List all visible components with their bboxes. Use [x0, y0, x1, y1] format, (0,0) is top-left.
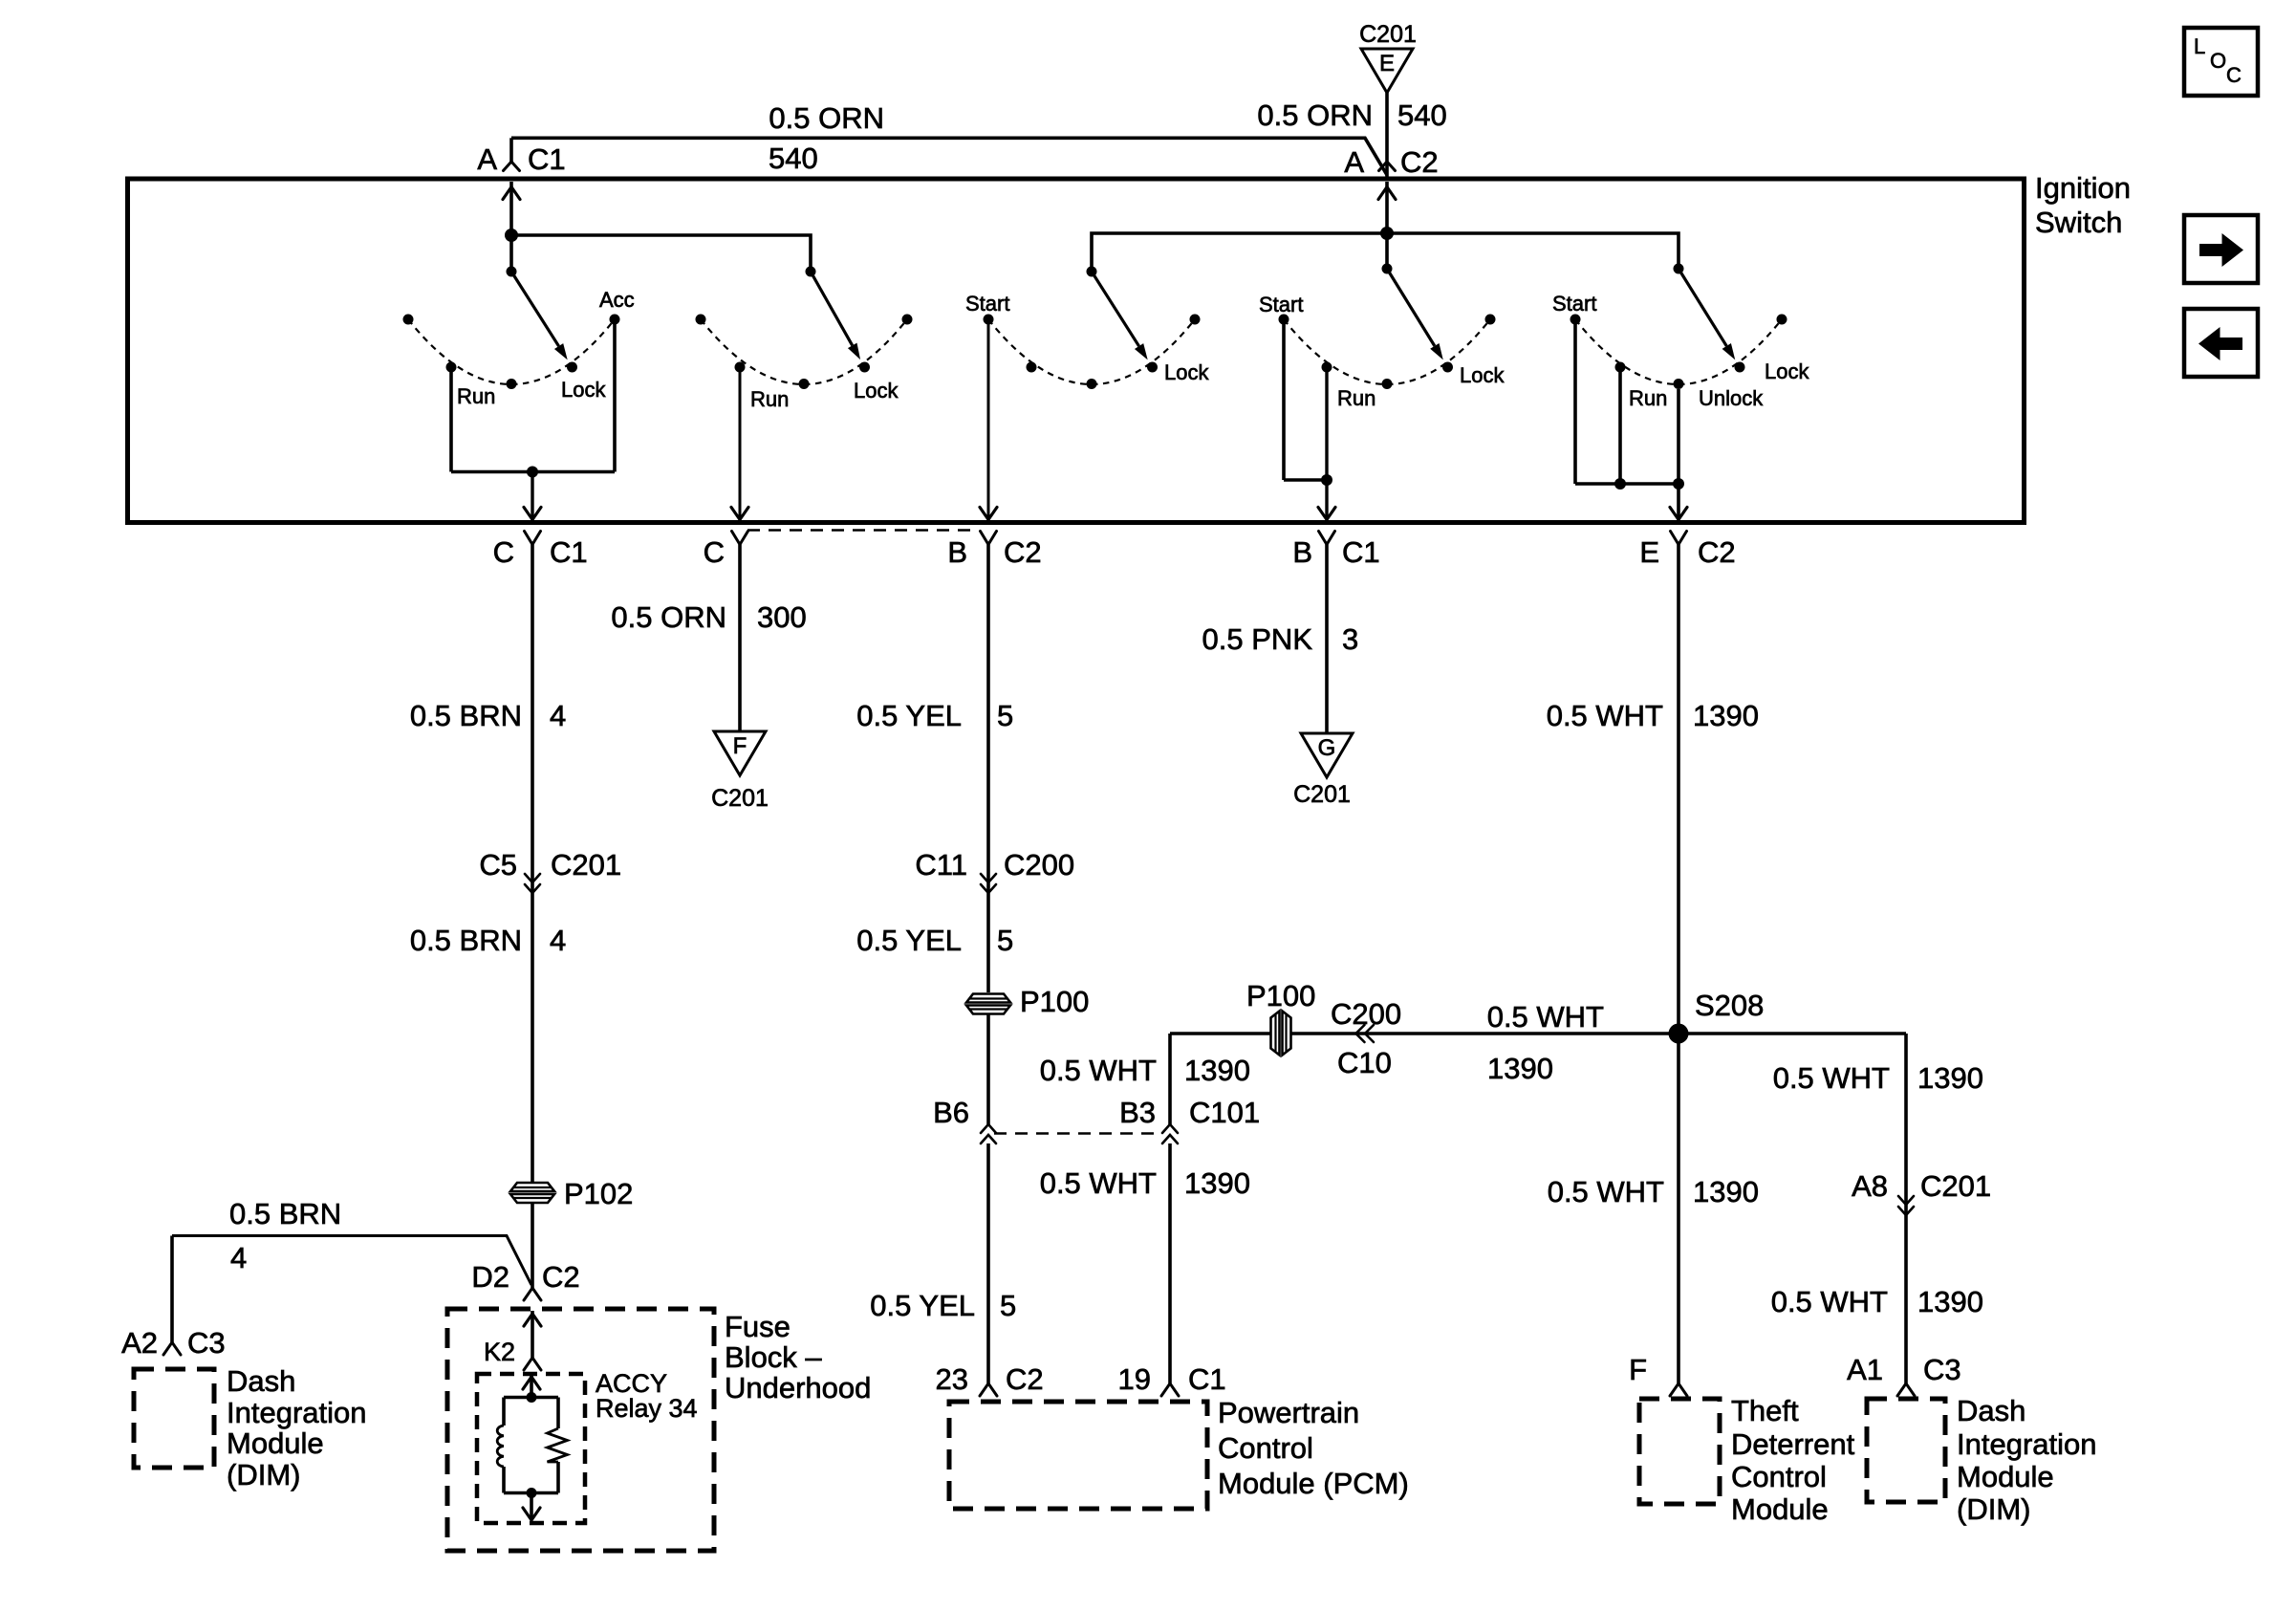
- svg-text:4: 4: [550, 699, 566, 732]
- svg-text:1390: 1390: [1917, 1061, 1983, 1095]
- svg-text:Run: Run: [1337, 386, 1375, 410]
- svg-text:C2: C2: [542, 1260, 580, 1294]
- svg-text:C10: C10: [1337, 1046, 1392, 1079]
- svg-text:Relay 34: Relay 34: [596, 1394, 698, 1423]
- svg-text:C200: C200: [1004, 848, 1074, 882]
- svg-text:Dash: Dash: [227, 1364, 295, 1398]
- svg-text:C3: C3: [1923, 1353, 1961, 1386]
- svg-text:E: E: [1379, 51, 1395, 76]
- svg-text:1390: 1390: [1917, 1285, 1983, 1318]
- svg-text:0.5 YEL: 0.5 YEL: [856, 924, 962, 957]
- svg-text:Switch: Switch: [2035, 206, 2122, 239]
- svg-text:1390: 1390: [1693, 699, 1759, 732]
- svg-text:Run: Run: [457, 384, 495, 408]
- svg-text:C2: C2: [1400, 145, 1439, 179]
- svg-text:Lock: Lock: [561, 378, 606, 402]
- svg-text:C1: C1: [1342, 535, 1380, 569]
- svg-text:Start: Start: [1552, 292, 1596, 316]
- svg-text:0.5 BRN: 0.5 BRN: [410, 924, 522, 957]
- svg-text:3: 3: [1342, 622, 1358, 656]
- svg-text:C201: C201: [1920, 1169, 1991, 1203]
- svg-text:O: O: [2210, 49, 2226, 73]
- svg-text:Module: Module: [227, 1426, 324, 1460]
- svg-text:0.5 YEL: 0.5 YEL: [856, 699, 962, 732]
- svg-text:D2: D2: [471, 1260, 509, 1294]
- svg-text:0.5 WHT: 0.5 WHT: [1040, 1054, 1157, 1087]
- svg-text:0.5 YEL: 0.5 YEL: [870, 1289, 975, 1322]
- svg-text:C1: C1: [1188, 1362, 1226, 1396]
- svg-text:0.5 WHT: 0.5 WHT: [1040, 1166, 1157, 1200]
- svg-text:Module: Module: [1957, 1460, 2054, 1493]
- svg-text:1390: 1390: [1184, 1166, 1250, 1200]
- svg-text:C201: C201: [551, 848, 621, 882]
- svg-text:C200: C200: [1331, 997, 1401, 1031]
- svg-text:4: 4: [230, 1241, 247, 1274]
- svg-text:5: 5: [997, 924, 1013, 957]
- svg-text:A: A: [1344, 145, 1364, 179]
- svg-text:0.5 PNK: 0.5 PNK: [1202, 622, 1313, 656]
- svg-text:P102: P102: [564, 1177, 633, 1210]
- svg-text:(DIM): (DIM): [227, 1458, 300, 1491]
- svg-text:Run: Run: [750, 387, 789, 411]
- svg-text:C2: C2: [1004, 535, 1042, 569]
- svg-text:300: 300: [757, 600, 807, 634]
- svg-text:K2: K2: [484, 1338, 515, 1366]
- svg-text:C201: C201: [1293, 781, 1351, 808]
- svg-text:540: 540: [1397, 98, 1447, 132]
- svg-text:540: 540: [769, 142, 818, 175]
- svg-text:C101: C101: [1189, 1096, 1260, 1129]
- svg-text:Underhood: Underhood: [725, 1371, 871, 1404]
- svg-text:0.5 ORN: 0.5 ORN: [769, 101, 884, 135]
- svg-text:4: 4: [550, 924, 566, 957]
- svg-text:23: 23: [936, 1362, 968, 1396]
- svg-text:A8: A8: [1852, 1169, 1888, 1203]
- svg-text:Lock: Lock: [1164, 360, 1209, 384]
- svg-text:Control: Control: [1731, 1460, 1827, 1493]
- svg-text:C: C: [704, 535, 725, 569]
- svg-text:A1: A1: [1847, 1353, 1883, 1386]
- svg-text:Acc: Acc: [599, 288, 635, 312]
- svg-text:L: L: [2194, 34, 2205, 58]
- svg-text:Deterrent: Deterrent: [1731, 1427, 1855, 1461]
- svg-text:S208: S208: [1695, 989, 1764, 1022]
- svg-text:Start: Start: [965, 292, 1009, 316]
- svg-text:B3: B3: [1119, 1096, 1156, 1129]
- svg-text:F: F: [1629, 1353, 1647, 1386]
- svg-text:A2: A2: [121, 1326, 158, 1360]
- svg-text:0.5 WHT: 0.5 WHT: [1771, 1285, 1888, 1318]
- svg-text:Start: Start: [1259, 293, 1303, 316]
- svg-text:C: C: [493, 535, 514, 569]
- svg-text:0.5 WHT: 0.5 WHT: [1547, 699, 1663, 732]
- svg-text:Unlock: Unlock: [1699, 386, 1764, 410]
- svg-text:C1: C1: [550, 535, 588, 569]
- svg-text:F: F: [733, 733, 747, 759]
- svg-text:C201: C201: [711, 785, 769, 812]
- svg-text:E: E: [1639, 535, 1659, 569]
- svg-text:Dash: Dash: [1957, 1394, 2025, 1427]
- svg-text:G: G: [1318, 735, 1336, 761]
- svg-text:Lock: Lock: [854, 379, 899, 403]
- svg-text:B: B: [1292, 535, 1312, 569]
- svg-text:Integration: Integration: [1957, 1427, 2097, 1461]
- svg-text:C5: C5: [479, 848, 517, 882]
- svg-text:Ignition: Ignition: [2035, 171, 2131, 205]
- svg-text:5: 5: [997, 699, 1013, 732]
- svg-text:1390: 1390: [1487, 1052, 1553, 1085]
- svg-text:Integration: Integration: [227, 1396, 367, 1429]
- svg-text:Lock: Lock: [1460, 363, 1505, 387]
- svg-text:Lock: Lock: [1765, 359, 1809, 383]
- svg-text:Run: Run: [1629, 386, 1667, 410]
- svg-text:C: C: [2226, 63, 2242, 87]
- svg-text:C11: C11: [915, 848, 967, 882]
- svg-text:0.5 WHT: 0.5 WHT: [1548, 1175, 1664, 1208]
- svg-text:P100: P100: [1020, 985, 1089, 1018]
- svg-text:0.5 ORN: 0.5 ORN: [1257, 98, 1373, 132]
- svg-text:1390: 1390: [1693, 1175, 1759, 1208]
- svg-text:1390: 1390: [1184, 1054, 1250, 1087]
- svg-text:P100: P100: [1246, 979, 1315, 1012]
- svg-text:0.5 BRN: 0.5 BRN: [229, 1197, 341, 1230]
- svg-text:Module (PCM): Module (PCM): [1218, 1467, 1409, 1500]
- svg-text:B: B: [947, 535, 967, 569]
- svg-text:5: 5: [1000, 1289, 1016, 1322]
- svg-text:19: 19: [1118, 1362, 1151, 1396]
- svg-text:0.5 BRN: 0.5 BRN: [410, 699, 522, 732]
- svg-text:C2: C2: [1698, 535, 1736, 569]
- svg-text:C3: C3: [187, 1326, 226, 1360]
- svg-text:C2: C2: [1006, 1362, 1044, 1396]
- svg-text:Theft: Theft: [1731, 1394, 1799, 1427]
- svg-text:A: A: [477, 142, 497, 176]
- svg-text:Block –: Block –: [725, 1340, 822, 1374]
- svg-text:C1: C1: [528, 142, 566, 176]
- svg-text:Powertrain: Powertrain: [1218, 1396, 1359, 1429]
- svg-text:Fuse: Fuse: [725, 1310, 791, 1343]
- svg-text:(DIM): (DIM): [1957, 1492, 2030, 1526]
- svg-text:B6: B6: [933, 1096, 969, 1129]
- svg-text:C201: C201: [1359, 21, 1417, 48]
- svg-text:0.5 WHT: 0.5 WHT: [1773, 1061, 1890, 1095]
- svg-text:Module: Module: [1731, 1492, 1829, 1526]
- svg-text:Control: Control: [1218, 1431, 1313, 1465]
- svg-text:0.5 WHT: 0.5 WHT: [1487, 1000, 1604, 1034]
- svg-text:0.5 ORN: 0.5 ORN: [611, 600, 726, 634]
